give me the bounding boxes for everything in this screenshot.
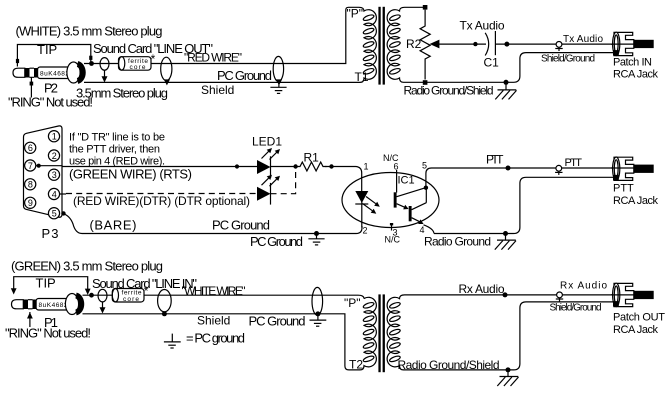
svg-text:P 2: P 2 (44, 81, 58, 96)
svg-text:PC Ground: PC Ground (249, 314, 306, 329)
T1 secondary leaves (389, 14, 401, 75)
svg-text:T1: T1 (355, 70, 369, 84)
chassis ground symbol row1 (495, 84, 516, 99)
LED2 diode triangle (DTR optional) (257, 187, 271, 201)
capacitor C1 (484, 31, 500, 70)
svg-text:IC1: IC1 (398, 175, 415, 187)
plug barrel with text (38, 67, 74, 79)
T2 primary leaves (363, 301, 375, 362)
svg-text:PTT: PTT (565, 157, 583, 169)
svg-text:R1: R1 (304, 151, 320, 165)
node dot before LED1 (235, 164, 239, 168)
R2 wiper arrow (430, 40, 440, 49)
LED2 cathode bar (270, 183, 272, 205)
shield pointer line loop1 row3 (102, 302, 104, 308)
LED1 emission arrows (262, 148, 281, 160)
shield pointer arrow loop2 (164, 79, 170, 85)
svg-text:Rx Audio: Rx Audio (560, 281, 607, 292)
stereo plug P2 (13, 62, 83, 83)
transformer T2 (344, 294, 405, 372)
plug ring insulator (30, 68, 35, 77)
svg-text:Radio Ground/Shield: Radio Ground/Shield (398, 358, 500, 372)
wire PTT IC1 pin5 to jack (432, 167, 635, 169)
svg-text:4: 4 (420, 225, 425, 235)
svg-text:R2: R2 (406, 37, 422, 51)
IC1 internal LED triangle (355, 191, 368, 203)
wire C1 to Patch IN jack (495, 43, 634, 45)
svg-text:RCA Jack: RCA Jack (613, 195, 659, 207)
P3 pin 9 (25, 197, 36, 208)
node dot pin5 (61, 211, 65, 215)
cable loop 3 row3 (312, 287, 323, 315)
node radio ground junction row1 (504, 80, 509, 85)
node dot Rx Audio (503, 292, 508, 297)
T2 secondary winding (387, 295, 404, 370)
plug ring band1 (23, 300, 28, 310)
P3 pin 3 (48, 169, 59, 180)
svg-text:2: 2 (52, 151, 57, 161)
wire T2 secondary top Rx Audio to jack (405, 294, 635, 296)
cable loop 1 (100, 58, 109, 71)
svg-text:(GREEN WIRE) (RTS): (GREEN WIRE) (RTS) (69, 167, 192, 182)
svg-text:(BARE): (BARE) (90, 218, 137, 233)
node dot loop2 row3 (162, 311, 167, 316)
IC1 Q2 collector (412, 188, 427, 210)
ferrite core choke row3 (112, 289, 144, 303)
wire T2 secondary bottom radio ground row3 (404, 302, 615, 370)
node dot LED1/R1 dashed joint (293, 164, 297, 168)
IC1 pin4 lead (424, 225, 435, 234)
svg-text:Rx Audio: Rx Audio (459, 282, 505, 296)
svg-text:C1: C1 (484, 56, 500, 70)
IC1 internal LED cathode bar (355, 203, 368, 205)
connector P3 DB9 body (24, 126, 63, 217)
svg-text:"P": "P" (347, 7, 364, 21)
svg-text:N/C: N/C (385, 235, 401, 245)
T2 core bars (378, 294, 380, 372)
terminal symbol Rx Audio (556, 292, 563, 302)
svg-text:"RED WIRE": "RED WIRE" (184, 51, 242, 65)
stereo plug P1 (12, 294, 82, 315)
IC1 light arrows (366, 197, 376, 204)
plug tip (12, 300, 24, 309)
node junction TIP/top wire (89, 61, 94, 66)
TIP arrow left row3 (11, 288, 17, 294)
cable loop 3 (273, 56, 283, 81)
TIP bracket pointer row3 (14, 277, 88, 289)
plug collar ellipse (65, 294, 78, 315)
node dot before C1 (473, 42, 477, 46)
C1 straight plate (494, 31, 496, 55)
P3 pin 6 (25, 142, 36, 153)
svg-text:"RING" Not used!: "RING" Not used! (8, 95, 93, 110)
TIP pointer arrow left (16, 59, 19, 63)
svg-text:(RED WIRE)(DTR) (DTR optional: (RED WIRE)(DTR) (DTR optional) (73, 194, 250, 208)
svg-text:core: core (130, 64, 146, 71)
svg-text:TIP: TIP (37, 42, 57, 57)
wire R2 wiper to C1 (439, 43, 487, 45)
IC1 pin3 stub (390, 223, 393, 225)
IC1 transistor Q2 base bar (409, 206, 412, 221)
resistor R1 (297, 162, 327, 171)
node dot radio ground row3 (506, 367, 511, 372)
svg-text:1: 1 (364, 162, 369, 172)
IC1 Q1 collector (397, 188, 426, 197)
plug barrel with text (36, 299, 72, 311)
RCA jack Patch OUT (611, 283, 654, 306)
chassis ground symbol row2 (495, 235, 516, 249)
svg-text:Patch OUT: Patch OUT (613, 312, 665, 324)
svg-text:7: 7 (28, 161, 33, 171)
svg-text:N/C: N/C (383, 153, 399, 163)
P3 pin 1 (48, 131, 59, 142)
P3 pin 2 (48, 150, 59, 161)
R2 top terminal square (423, 5, 428, 10)
svg-text:Tx Audio: Tx Audio (460, 19, 505, 33)
plug ring insulator (28, 300, 33, 309)
IC1 pin6 base lead (396, 170, 398, 193)
wire top (RED WIRE center conductor) P2 to T1 (84, 7, 359, 63)
LED2 emission arrows (262, 175, 281, 187)
plug collar black ring (78, 64, 83, 81)
wire LED1 to R1 (271, 166, 297, 168)
RING pointer line row3 (29, 312, 31, 327)
TIP arrow right row3 (85, 289, 91, 295)
wire bottom (shield) P2 to T1 (84, 81, 356, 83)
plug tip (13, 68, 25, 77)
ground symbol PC ground row3 (310, 316, 327, 327)
node dot after C1 (504, 42, 509, 47)
node dot PTT (506, 166, 511, 171)
LED1 cathode bar (270, 156, 272, 178)
svg-text:(WHITE) 3.5 mm Stereo plug: (WHITE) 3.5 mm Stereo plug (16, 24, 163, 39)
svg-text:core: core (123, 296, 139, 303)
R2 bottom terminal square (423, 80, 428, 85)
svg-text:RCA Jack: RCA Jack (613, 69, 659, 81)
IC1 internal LED cathode lead to pin2 (361, 191, 363, 228)
svg-text:*: * (151, 52, 156, 66)
shield pointer arrow loop1 row3 (100, 307, 106, 313)
svg-text:Tx Audio: Tx Audio (563, 34, 603, 45)
wire LED2 to joint dashed (271, 167, 296, 194)
svg-text:*: * (144, 284, 149, 298)
T1 primary winding (356, 7, 376, 82)
svg-text:"WHITE WIRE": "WHITE WIRE" (182, 284, 246, 298)
plug collar black ring (76, 296, 81, 313)
svg-text:PC Ground: PC Ground (250, 234, 303, 249)
ferrite core choke (119, 57, 152, 71)
plug ring band2 (34, 68, 38, 78)
plug ring band1 (25, 68, 30, 78)
terminal symbol PTT (555, 165, 562, 174)
T1 primary leaves (363, 14, 375, 75)
IC1 Q2 emitter with arrow (412, 218, 420, 222)
TIP pointer arrow right (89, 56, 92, 60)
node dot pin7 (37, 164, 41, 168)
svg-text:4: 4 (52, 189, 57, 199)
wire bottom shield P1 to T2 riser (83, 314, 361, 370)
wire radio ground row2 (434, 177, 614, 233)
T1 secondary winding (387, 7, 404, 82)
RCA jack Patch IN (611, 32, 654, 55)
ground symbol PC ground row1 (270, 83, 286, 93)
svg-text:3: 3 (52, 170, 57, 180)
svg-text:TIP: TIP (36, 276, 56, 291)
plug ring band2 (33, 300, 37, 310)
RING pointer arrow (30, 82, 34, 86)
RING pointer line (30, 78, 32, 98)
chassis ground symbol row3 (497, 372, 518, 386)
IC1 transistor Q1 base bar (394, 192, 397, 207)
node dot pc ground row2 (314, 231, 319, 236)
svg-text:Shield: Shield (201, 83, 234, 97)
C1 curved plate (485, 33, 489, 56)
T2 primary winding (360, 297, 376, 370)
wire T1 secondary bottom / radio ground shield (404, 53, 614, 83)
cable loop 1 row3 (98, 289, 107, 302)
svg-text:"P": "P" (344, 296, 361, 310)
svg-text:6: 6 (28, 143, 33, 153)
optocoupler IC1 (342, 153, 439, 245)
node junction TIP/top wire row3 (89, 293, 94, 298)
node dot radio ground row2 (503, 231, 508, 236)
wire pin5 BARE pc ground (63, 213, 363, 233)
svg-text:LED1: LED1 (252, 135, 282, 149)
svg-text:Shield/Ground: Shield/Ground (550, 303, 602, 314)
cable loop 2 row3 (158, 290, 172, 312)
T2 secondary leaves (389, 301, 401, 362)
svg-text:1: 1 (52, 132, 57, 142)
svg-text:PC Ground: PC Ground (212, 218, 270, 233)
shield pointer line loop1 (104, 70, 106, 76)
svg-text:Shield: Shield (197, 314, 230, 328)
svg-text:(GREEN) 3.5 mm Stereo plug: (GREEN) 3.5 mm Stereo plug (11, 259, 163, 274)
potentiometer R2 (406, 5, 439, 85)
RING pointer arrow row3 (27, 312, 33, 318)
T1 core bars (378, 7, 380, 85)
wire pin7 RTS to LED1 (36, 165, 257, 168)
ground symbol PC ground row2 (308, 235, 324, 245)
svg-text:Radio Ground: Radio Ground (424, 235, 491, 249)
TIP bracket pointer (17, 45, 90, 67)
svg-text:RCA Jack: RCA Jack (613, 324, 659, 336)
svg-text:Patch IN: Patch IN (613, 57, 652, 69)
svg-text:"RING" Not used!: "RING" Not used! (5, 326, 91, 341)
plug collar ellipse (67, 62, 80, 83)
svg-text:Radio Ground/Shield: Radio Ground/Shield (404, 83, 494, 97)
svg-text:PC Ground: PC Ground (217, 68, 272, 83)
wire R1 to IC1 pin1 (325, 167, 362, 192)
LED1 diode triangle (257, 160, 271, 174)
svg-text:PTT: PTT (486, 153, 504, 167)
shield pointer arrow loop1 (102, 76, 108, 82)
svg-text:8: 8 (28, 180, 33, 190)
cable loop 2 (161, 57, 172, 80)
svg-text:= PC ground: = PC ground (186, 331, 245, 346)
node dot after R1 (329, 164, 333, 168)
IC1 internal LED anode lead (361, 177, 363, 191)
P3 pin 8 (25, 179, 36, 190)
P3 pin 5 (48, 208, 59, 219)
RCA jack PTT (611, 157, 654, 180)
P3 pin 7 (25, 160, 36, 171)
svg-text:If "D TR" line is to be: If "D TR" line is to be (69, 132, 165, 144)
transformer T1 (347, 7, 405, 85)
IC1 collector node dot (424, 186, 428, 190)
P3 pin 4 (48, 188, 59, 199)
svg-text:2: 2 (363, 226, 368, 236)
node dot loop3 row3 (315, 311, 320, 316)
wire T1 secondary top to R2 (405, 6, 426, 8)
legend ground symbol (164, 334, 181, 348)
R2 resistor body zigzag (420, 10, 430, 80)
svg-text:5: 5 (52, 209, 57, 219)
IC1 pin5 lead (426, 168, 432, 188)
svg-text:P 3: P 3 (42, 226, 59, 241)
svg-text:T2: T2 (349, 358, 363, 372)
svg-text:Shield/Ground: Shield/Ground (541, 54, 595, 65)
wire top Rx P1 to T2 (83, 295, 365, 298)
svg-text:the PTT driver, then: the PTT driver, then (69, 144, 160, 156)
terminal symbol Tx Audio (555, 42, 562, 52)
svg-text:PTT: PTT (613, 183, 634, 195)
wire pin4 DTR dashed (60, 193, 66, 195)
svg-text:9: 9 (28, 198, 33, 208)
IC1 Q1 emitter with arrow (397, 204, 405, 208)
IC1 package ellipse (342, 173, 439, 228)
shield arrow loop3 (276, 79, 282, 85)
svg-text:5: 5 (422, 161, 427, 171)
